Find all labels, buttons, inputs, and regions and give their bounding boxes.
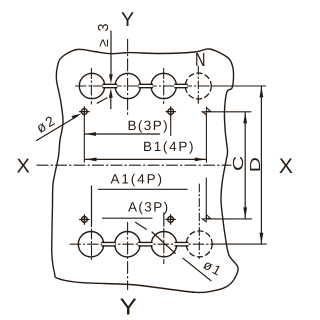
- corner point top: horizontal extension: [206, 111, 251, 113]
- arrow B1 left: [86, 158, 97, 162]
- slot lines bottom c1-c2: [102, 242, 116, 246]
- centerline bottom c1 lower: [91, 229, 93, 262]
- centerline bottom c1 upper solid bar: [91, 186, 93, 227]
- board outline: [52, 49, 238, 293]
- hole circle top c1: [79, 73, 104, 98]
- extension line from top-left marker: [83, 117, 85, 163]
- hole circle bottom c3: [151, 232, 176, 257]
- slot gap masks top row: [103, 85, 187, 87]
- mounting hole marker top right: [166, 107, 175, 116]
- X axis chain line: [37, 164, 231, 166]
- svg-text:B1(4P): B1(4P): [143, 139, 195, 154]
- corner point bottom flags: [202, 215, 210, 222]
- dimension line B1(4P): [86, 158, 206, 160]
- leader through bottom c3: [136, 222, 176, 253]
- svg-text:X: X: [279, 155, 293, 178]
- dashed hole circle top c4: [185, 73, 211, 99]
- svg-text:N: N: [195, 50, 206, 71]
- svg-text:Y: Y: [120, 293, 138, 319]
- phi2 leader with arrow: [37, 116, 78, 141]
- hole circle top c3: [151, 73, 176, 98]
- svg-text:D: D: [248, 157, 264, 172]
- D top extension line: [211, 85, 265, 87]
- slot lines bottom c2-c3: [138, 242, 152, 246]
- svg-text:≥3: ≥3: [96, 16, 112, 47]
- svg-text:Y: Y: [121, 9, 134, 31]
- slot gap masks bottom row: [102, 243, 188, 245]
- svg-text:ø2: ø2: [33, 111, 59, 136]
- svg-text:B(3P): B(3P): [128, 118, 170, 133]
- centerline top c3: [163, 69, 165, 104]
- slot lines bottom c3-c4: [175, 242, 188, 246]
- hole circle bottom c2: [115, 232, 140, 257]
- dimension line D: [260, 86, 262, 243]
- slot lines top c3-c4: [175, 84, 187, 87]
- svg-text:X: X: [17, 155, 30, 177]
- centerline top c1: [90, 69, 92, 105]
- centerline bottom c3 lower: [163, 229, 165, 264]
- mounting hole marker bottom right: [166, 215, 175, 224]
- bottom row horizontal centerline: [70, 243, 213, 245]
- slot width dim: lower line with up arrow: [110, 98, 112, 109]
- dimension line C: [244, 112, 246, 218]
- slot width dim: upper line with down arrow: [110, 31, 112, 75]
- Y axis chain line: [127, 39, 129, 116]
- arrow D top: [260, 86, 264, 97]
- mounting hole marker bottom left: [80, 215, 89, 224]
- dimension line A(3P): [103, 217, 152, 219]
- arrow C top: [243, 112, 247, 123]
- svg-text:A1(4P): A1(4P): [111, 172, 164, 187]
- hole circle top c2: [115, 73, 140, 98]
- centerline top c4: [197, 67, 199, 105]
- corner point bottom: horizontal extension: [206, 218, 251, 220]
- svg-text:C: C: [231, 156, 247, 171]
- dimension line A1(4P): [98, 188, 187, 190]
- corner point top flags: [202, 108, 210, 115]
- dimension line B(3P): [85, 133, 160, 135]
- centerline bottom c3 upper solid bar: [163, 213, 165, 226]
- arrow D bottom: [260, 233, 264, 244]
- svg-text:A(3P): A(3P): [128, 200, 170, 215]
- extension line from top-right marker: [170, 117, 172, 136]
- hole circle bottom c1: [78, 232, 103, 257]
- dashed hole circle bottom c4: [186, 231, 212, 257]
- centerline bottom c4: [198, 184, 200, 259]
- slot lines top c1-c2: [103, 84, 117, 87]
- corner point bottom: vertical extension: [205, 178, 207, 219]
- corner point top: vertical extension: [205, 115, 207, 162]
- slot lines top c2-c3: [139, 84, 153, 87]
- top row horizontal centerline: [76, 85, 212, 87]
- phi1 leader: [183, 258, 211, 281]
- slot width dim: diagonal tick: [97, 98, 107, 103]
- arrow C bottom: [243, 207, 247, 218]
- arrow B1 right: [195, 158, 206, 162]
- arrow B left: [85, 132, 96, 136]
- D bottom extension line: [213, 243, 266, 245]
- mounting hole marker top left: [80, 107, 89, 116]
